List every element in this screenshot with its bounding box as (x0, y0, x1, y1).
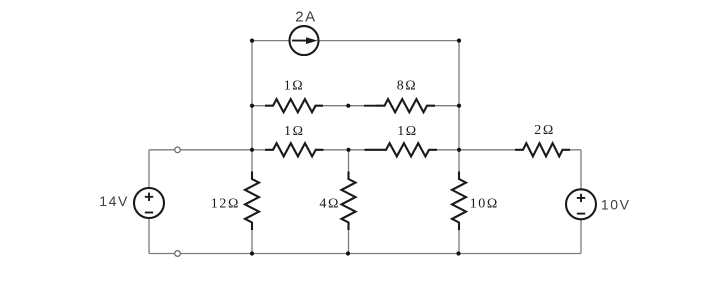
svg-text:10Ω: 10Ω (470, 197, 499, 212)
svg-text:1Ω: 1Ω (397, 124, 418, 139)
svg-text:14V: 14V (99, 193, 129, 209)
svg-text:2A: 2A (295, 9, 317, 26)
svg-text:1Ω: 1Ω (284, 79, 305, 94)
svg-text:4Ω: 4Ω (319, 197, 340, 212)
svg-text:10V: 10V (601, 197, 631, 213)
svg-text:1Ω: 1Ω (284, 124, 305, 139)
svg-text:12Ω: 12Ω (211, 197, 240, 212)
svg-text:8Ω: 8Ω (397, 79, 418, 94)
svg-text:2Ω: 2Ω (534, 123, 555, 138)
